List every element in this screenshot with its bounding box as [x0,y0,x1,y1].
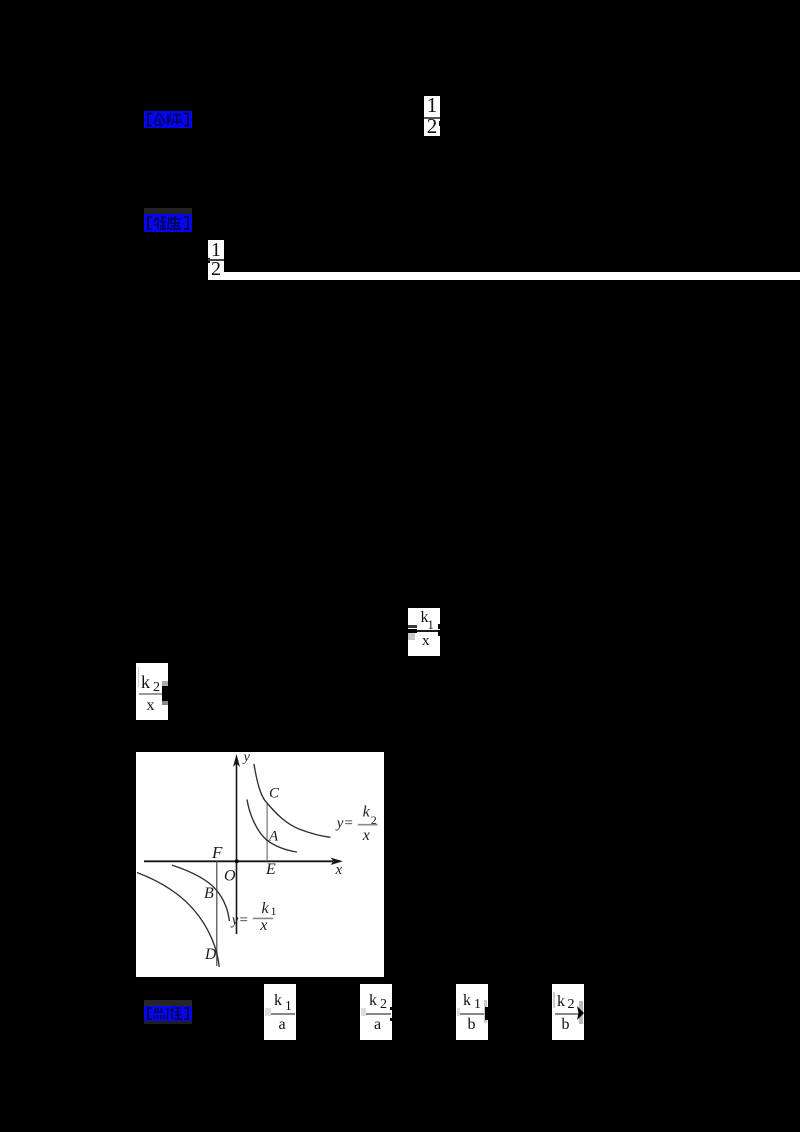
long white bar [224,272,800,280]
Q3 outer hyperbola through D [137,872,219,967]
svg-text:x: x [362,827,370,844]
y axis [236,762,238,934]
svg-text:k: k [262,899,270,916]
fraction 1/2 first [424,96,440,136]
equation =k1/x box [408,608,440,656]
graph image [136,752,384,977]
svg-text:F: F [211,842,223,861]
equation k2/x box [136,663,168,720]
black triangle mark [577,1006,584,1020]
svg-text:x: x [335,862,343,878]
fraction k2/a [360,984,392,1041]
x axis [144,860,333,862]
label ANSWER blue box with dark top band [144,208,192,214]
labels [204,749,377,962]
equals sign at left edge [408,625,417,628]
right notch [438,624,440,629]
Q3 inner hyperbola through B [172,865,230,921]
svg-text:D: D [204,946,216,963]
black comma blob at right [162,686,168,701]
svg-text:E: E [265,860,276,877]
svg-text:O: O [224,867,236,884]
FD vertical [216,861,218,966]
label COMMENT blue box with dark bands [144,1000,192,1006]
svg-text:1: 1 [271,904,277,918]
svg-text:y: y [242,752,251,765]
Q1 outer hyperbola k2 [254,764,331,837]
fraction 1/2 second [208,240,224,280]
CE vertical [266,803,268,861]
fraction k1/a [264,984,296,1041]
svg-text:x: x [259,917,267,934]
svg-text:C: C [269,785,280,801]
label ANALYSIS blue box [144,111,192,128]
Q1 inner hyperbola [247,799,297,852]
svg-text:A: A [268,828,279,844]
origin dot [235,859,238,862]
small black notch right of fraction [439,121,441,126]
svg-text:B: B [204,884,214,901]
svg-text:k: k [363,803,371,820]
fraction k1/b [456,984,488,1041]
svg-text:y=: y= [230,912,249,928]
svg-text:y=: y= [335,815,354,831]
fraction k2/b [552,984,584,1040]
